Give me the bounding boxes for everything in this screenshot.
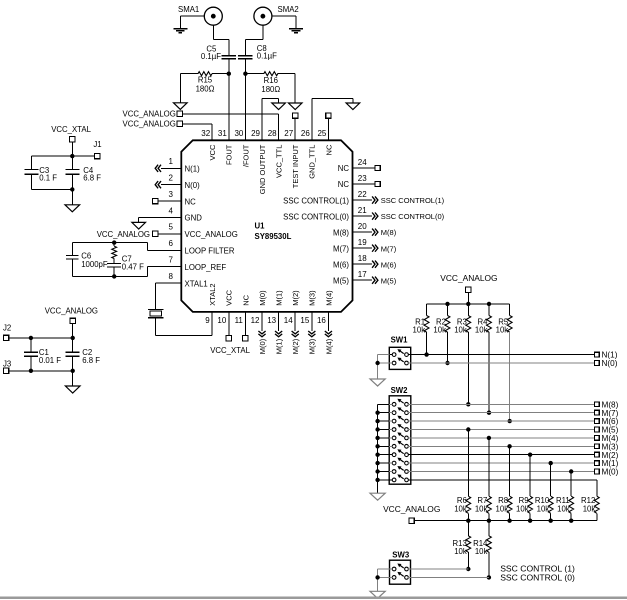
node R10 on M line [549, 461, 553, 465]
crystal Y1 [148, 308, 164, 310]
wire C8 node to pin30 /FOUT [244, 74, 246, 141]
svg-text:M(8): M(8) [333, 228, 349, 237]
node R9 on rail [528, 519, 532, 523]
svg-text:/FOUT: /FOUT [241, 144, 250, 167]
node J3/C1 [29, 369, 33, 373]
ground pin4 [132, 222, 146, 229]
wire SW3 left rail to ground [378, 568, 390, 570]
node rail R4 [487, 302, 491, 306]
wire SW2 row2 to M(7) [389, 412, 392, 414]
svg-text:GND: GND [185, 214, 203, 223]
svg-text:29: 29 [251, 129, 260, 138]
ground R15 [174, 103, 188, 110]
net arrow M(6) pin 18 [353, 263, 373, 265]
svg-text:0.1µF: 0.1µF [257, 52, 277, 61]
svg-text:10k: 10k [475, 547, 488, 556]
svg-text:R15: R15 [198, 75, 213, 84]
svg-text:VCC: VCC [208, 144, 217, 160]
pin terminal M(0) [594, 469, 599, 474]
wire pull-up rail [427, 303, 510, 305]
svg-text:SMA2: SMA2 [278, 5, 299, 14]
svg-text:18: 18 [358, 254, 367, 263]
wire pin29 GND OUTPUT to ground [261, 98, 263, 140]
svg-text:M(2): M(2) [291, 290, 300, 306]
resistor R14 10k [488, 521, 490, 536]
node R3 junction [466, 402, 470, 406]
svg-text:VCC: VCC [225, 289, 234, 305]
svg-text:VCC_ANALOG: VCC_ANALOG [97, 230, 150, 239]
node J3/C2 [71, 369, 75, 373]
wire SW2 row7 to M(2) [389, 454, 392, 456]
svg-text:SSC CONTROL(1): SSC CONTROL(1) [283, 196, 349, 205]
wire SW1 row2 to N(0) [389, 362, 392, 364]
svg-text:12: 12 [251, 316, 260, 325]
wire pin26 GND_TTL to ground [311, 98, 313, 140]
pin terminal NC pin25 [326, 113, 331, 118]
wire SW1 left rail to ground [378, 354, 390, 356]
wire SW2 row1 to M(8) [389, 403, 392, 405]
wire SW2 row9 to M(0) [389, 471, 392, 473]
wire SW2 row3 to M(6) [389, 420, 392, 422]
node R13/SSC1 [466, 567, 470, 571]
resistor R5 10k [509, 304, 511, 316]
capacitor C3 0.1F [31, 155, 72, 157]
net arrow M(1) pin 13 [278, 312, 280, 331]
net arrow M(2) pin 14 [294, 312, 296, 331]
svg-text:VCC_ANALOG: VCC_ANALOG [383, 504, 440, 514]
svg-text:10: 10 [217, 316, 226, 325]
node R5 junction [508, 419, 512, 423]
connector SMA1 [204, 7, 222, 25]
svg-text:1: 1 [169, 157, 174, 166]
pin terminal VCC_XTAL pin10 [228, 312, 230, 336]
node R9 on M line [528, 453, 532, 457]
svg-text:NC: NC [185, 197, 197, 206]
svg-text:M(0): M(0) [258, 338, 267, 354]
svg-text:22: 22 [358, 190, 367, 199]
svg-text:31: 31 [218, 129, 227, 138]
wire R16 to ground [294, 74, 296, 103]
svg-text:XTAL1: XTAL1 [185, 279, 208, 288]
wire SW3 row2 SSC CONTROL (0) [390, 576, 393, 578]
svg-text:SSC CONTROL (0): SSC CONTROL (0) [500, 572, 575, 582]
net arrow M(0) pin 12 [261, 312, 263, 331]
wire SW2 row4 to M(5) [389, 429, 392, 431]
wire SW3 row1 SSC CONTROL (1) [390, 568, 393, 570]
svg-text:M(8): M(8) [381, 228, 397, 237]
wire pin2 N(0) with arrow [161, 184, 181, 186]
svg-text:5: 5 [169, 223, 174, 232]
pin terminal TEST INPUT pin27 [293, 113, 298, 118]
resistor R16 180ohm [245, 73, 264, 75]
svg-text:VCC_TTL: VCC_TTL [275, 145, 284, 178]
node SW1 rail [375, 361, 379, 365]
pin terminal M(1) [594, 461, 599, 466]
svg-text:SMA1: SMA1 [178, 5, 199, 14]
svg-text:10k: 10k [583, 505, 596, 514]
node R10 on rail [549, 519, 553, 523]
capacitor C4 6.8F [71, 156, 73, 169]
node R4 junction [487, 411, 491, 415]
svg-text:M(6): M(6) [333, 260, 349, 269]
net arrow SSC CONTROL(1) pin 22 [353, 199, 373, 201]
svg-text:VCC_XTAL: VCC_XTAL [51, 125, 91, 134]
net arrow M(5) pin 17 [353, 279, 373, 281]
svg-text:N(0): N(0) [602, 359, 618, 368]
wire SMA1 to ground [180, 15, 204, 17]
svg-text:VCC_ANALOG: VCC_ANALOG [123, 110, 176, 119]
wire loop filter top rail [72, 242, 147, 244]
pin terminal VCC_XTAL pin11 [244, 312, 246, 336]
svg-text:180Ω: 180Ω [261, 85, 280, 94]
svg-text:24: 24 [358, 158, 367, 167]
svg-text:SSC CONTROL(0): SSC CONTROL(0) [381, 212, 445, 221]
svg-text:9: 9 [205, 316, 210, 325]
svg-text:GND OUTPUT: GND OUTPUT [258, 144, 267, 194]
node SW3 rail [375, 575, 379, 579]
svg-text:M(4): M(4) [324, 338, 333, 354]
svg-text:10k: 10k [475, 505, 488, 514]
resistor R15 180ohm [180, 73, 198, 75]
pin terminal NC pin24 [353, 167, 375, 169]
node R1 junction [424, 352, 428, 356]
svg-text:SSC CONTROL(0): SSC CONTROL(0) [283, 212, 349, 221]
wire SW2 row5 to M(4) [389, 437, 392, 439]
resistor R13 10k [467, 521, 469, 536]
ground VCC_XTAL block [65, 205, 80, 212]
svg-text:LOOP FILTER: LOOP FILTER [185, 247, 235, 256]
svg-text:14: 14 [284, 316, 293, 325]
pin terminal N(1) [594, 352, 599, 357]
node J2/C1 [29, 336, 33, 340]
capacitor C5 0.1uF [222, 55, 237, 57]
pin terminal M(5) [594, 427, 599, 432]
capacitor C1 0.01F [30, 338, 32, 352]
svg-text:M(0): M(0) [258, 290, 267, 306]
node R11 on rail [569, 519, 573, 523]
wire SMA2 to C8 [262, 25, 264, 39]
svg-text:3: 3 [169, 190, 174, 199]
svg-text:10k: 10k [475, 326, 488, 335]
resistor R4 10k [488, 304, 490, 316]
svg-text:180Ω: 180Ω [196, 85, 215, 94]
svg-text:FOUT: FOUT [225, 144, 234, 165]
svg-text:0.47 F: 0.47 F [122, 263, 144, 272]
svg-text:M(6): M(6) [381, 260, 397, 269]
svg-text:NC: NC [338, 164, 350, 173]
svg-text:8: 8 [169, 272, 174, 281]
svg-text:M(2): M(2) [291, 338, 300, 354]
resistor loop filter (unlabeled) [113, 243, 115, 247]
svg-text:1000pF: 1000pF [81, 260, 108, 269]
svg-text:23: 23 [358, 174, 367, 183]
svg-text:30: 30 [234, 129, 243, 138]
svg-text:10k: 10k [433, 326, 446, 335]
svg-text:10k: 10k [557, 505, 570, 514]
svg-text:M(1): M(1) [275, 290, 284, 306]
ground SMA2 (earth) [289, 28, 303, 30]
ground SMA1 (earth) [173, 28, 187, 30]
svg-text:6.8 F: 6.8 F [82, 356, 100, 365]
wire SW2 left rail to ground [378, 403, 390, 405]
resistor R6 10k [467, 430, 469, 497]
wire C5 node to pin31 FOUT [228, 74, 230, 141]
wire SMA2 to ground [272, 15, 296, 17]
node R2 junction [445, 361, 449, 365]
svg-text:20: 20 [358, 222, 367, 231]
wire R2 down [447, 332, 449, 363]
wire R5 down [509, 332, 511, 421]
wire R3 down [467, 332, 469, 404]
svg-text:10k: 10k [537, 505, 550, 514]
svg-text:M(7): M(7) [381, 244, 397, 253]
wire crystal to pin9 XTAL2 [155, 318, 157, 336]
svg-text:VCC_ANALOG: VCC_ANALOG [440, 273, 497, 283]
node R7 on rail [487, 519, 491, 523]
connector SMA2 [254, 7, 272, 25]
pin terminal NC pin3 [153, 198, 158, 203]
svg-text:10k: 10k [496, 505, 509, 514]
svg-text:VCC_ANALOG: VCC_ANALOG [123, 120, 176, 129]
svg-text:25: 25 [317, 129, 326, 138]
node rail R3 [466, 302, 470, 306]
node R8 on M line [507, 444, 511, 448]
svg-text:SW3: SW3 [392, 550, 410, 559]
svg-text:21: 21 [358, 206, 367, 215]
svg-text:U1: U1 [255, 222, 266, 231]
svg-text:10k: 10k [454, 505, 467, 514]
node R14/SSC0 [487, 575, 491, 579]
svg-text:10k: 10k [454, 326, 467, 335]
svg-text:16: 16 [317, 316, 326, 325]
node loop filter top [112, 240, 116, 244]
wire pin4 GND to ground [139, 217, 182, 219]
resistor R8 10k [509, 446, 511, 496]
wire C5 to node [228, 59, 230, 74]
ground SW1 [370, 379, 385, 386]
svg-text:SY89530L: SY89530L [255, 232, 292, 241]
resistor R11 10k [570, 472, 572, 497]
svg-text:N(1): N(1) [185, 165, 201, 174]
capacitor C6 1000pF [71, 243, 73, 256]
svg-text:M(3): M(3) [308, 290, 317, 306]
pin terminal M(7) [594, 410, 599, 415]
wire loop filter bottom rail [72, 275, 147, 277]
wire to ground [71, 189, 73, 204]
wire C8 to node [244, 59, 246, 74]
svg-text:6.8 F: 6.8 F [83, 174, 101, 183]
wire pin6 LOOP FILTER [147, 249, 181, 251]
node rail R2 [445, 302, 449, 306]
node VCC_XTAL top rail [70, 154, 74, 158]
schematic frame bottom border [0, 597, 627, 599]
ground SW3 [370, 591, 385, 598]
resistor R1 10k [426, 304, 428, 316]
wire pin1 N(1) with arrow [161, 167, 181, 169]
svg-text:10k: 10k [516, 505, 529, 514]
wire SMA1 to C5 [212, 25, 214, 39]
wire SW1 row1 to N(1) [389, 354, 392, 356]
svg-text:28: 28 [268, 129, 277, 138]
resistor R12 10k [594, 496, 599, 513]
net arrow SSC CONTROL(0) pin 21 [353, 215, 373, 217]
svg-text:32: 32 [201, 129, 210, 138]
svg-text:11: 11 [235, 316, 244, 325]
wire R1 down [426, 332, 428, 355]
node J2/C2 [71, 336, 75, 340]
IC U1 SY89530L outline [181, 140, 352, 312]
pin terminal NC pin23 [353, 183, 375, 185]
ground GND OUTPUT [272, 103, 286, 110]
ground bottom-left block [65, 386, 80, 393]
svg-text:6: 6 [169, 239, 174, 248]
wire pin7 LOOP_REF [147, 266, 181, 268]
svg-text:10k: 10k [413, 326, 426, 335]
node C7 bottom [112, 274, 116, 278]
ground GND_TTL [346, 103, 360, 110]
svg-text:J2: J2 [3, 323, 11, 332]
wire SW2 row6 to M(3) [389, 445, 392, 447]
svg-text:M(4): M(4) [324, 290, 333, 306]
node C8/R16/nFOUT junction [243, 72, 247, 76]
wire to ground [72, 371, 74, 386]
svg-text:27: 27 [284, 129, 293, 138]
svg-text:13: 13 [267, 316, 276, 325]
net arrow M(7) pin 19 [353, 247, 373, 249]
svg-text:7: 7 [169, 256, 174, 265]
resistor R9 10k [529, 455, 531, 497]
node R7 on M line [487, 436, 491, 440]
node C5/R15/FOUT junction [227, 72, 231, 76]
svg-text:17: 17 [358, 270, 367, 279]
capacitor C8 0.1uF [238, 55, 253, 57]
capacitor C7 0.47F [107, 263, 121, 265]
capacitor C2 6.8F [72, 338, 74, 352]
net arrow M(4) pin 16 [327, 312, 329, 331]
wire R15 to ground [179, 74, 181, 103]
svg-text:0.1 F: 0.1 F [39, 174, 57, 183]
svg-text:SW2: SW2 [391, 386, 409, 395]
pin terminal M(3) [594, 444, 599, 449]
svg-text:NC: NC [324, 144, 333, 155]
wire C3/C4 bottom rail [31, 188, 72, 190]
svg-text:SSC CONTROL(1): SSC CONTROL(1) [381, 196, 445, 205]
svg-text:2: 2 [169, 174, 174, 183]
svg-text:XTAL2: XTAL2 [208, 283, 217, 305]
pin terminal N(0) [594, 361, 599, 366]
ground SW2 [370, 493, 385, 500]
svg-text:0.1µF: 0.1µF [201, 52, 221, 61]
svg-text:R16: R16 [264, 76, 278, 85]
node R6 on rail [466, 519, 470, 523]
svg-text:TEST INPUT: TEST INPUT [291, 144, 300, 188]
svg-text:NC: NC [241, 294, 250, 305]
net arrow M(8) pin 20 [353, 231, 373, 233]
svg-text:SW1: SW1 [391, 335, 409, 344]
node R11 on M line [569, 469, 573, 473]
node C4 bottom [70, 187, 74, 191]
wire SW2 row8 to M(1) [389, 462, 392, 464]
svg-text:M(1): M(1) [275, 338, 284, 354]
svg-text:M(3): M(3) [308, 338, 317, 354]
wire SW2 row10 to R12 [389, 479, 392, 481]
net arrow M(3) pin 15 [311, 312, 313, 331]
pin terminal M(4) [594, 436, 599, 441]
svg-text:15: 15 [300, 316, 309, 325]
svg-text:LOOP_REF: LOOP_REF [185, 263, 227, 272]
wire pin8 XTAL1 to crystal [156, 282, 182, 284]
wire R4 down [488, 332, 490, 413]
resistor R7 10k [488, 438, 490, 496]
svg-text:M(5): M(5) [381, 276, 397, 285]
pin terminal M(8) [594, 402, 599, 407]
svg-text:0.01 F: 0.01 F [39, 356, 61, 365]
resistor R2 10k [447, 304, 449, 316]
svg-text:4: 4 [169, 206, 174, 215]
svg-text:10k: 10k [496, 326, 509, 335]
ground R16 [288, 103, 302, 110]
pin terminal M(2) [594, 452, 599, 457]
svg-text:M(0): M(0) [602, 468, 619, 477]
svg-text:NC: NC [338, 180, 350, 189]
svg-text:19: 19 [358, 238, 367, 247]
node R6 on M line [466, 427, 470, 431]
svg-text:N(0): N(0) [185, 181, 201, 190]
svg-text:VCC_XTAL: VCC_XTAL [210, 346, 250, 355]
svg-text:J3: J3 [3, 360, 11, 369]
node R8 on rail [507, 519, 511, 523]
resistor R3 10k [467, 304, 469, 316]
svg-text:10k: 10k [454, 547, 467, 556]
svg-text:M(7): M(7) [333, 244, 349, 253]
svg-text:M(5): M(5) [333, 276, 349, 285]
svg-text:VCC_ANALOG: VCC_ANALOG [45, 306, 98, 315]
resistor R10 10k [550, 463, 552, 496]
pin terminal M(6) [594, 419, 599, 424]
svg-text:VCC_ANALOG: VCC_ANALOG [185, 230, 238, 239]
svg-text:J1: J1 [93, 140, 101, 149]
svg-text:GND_TTL: GND_TTL [308, 145, 317, 179]
svg-text:26: 26 [301, 129, 310, 138]
